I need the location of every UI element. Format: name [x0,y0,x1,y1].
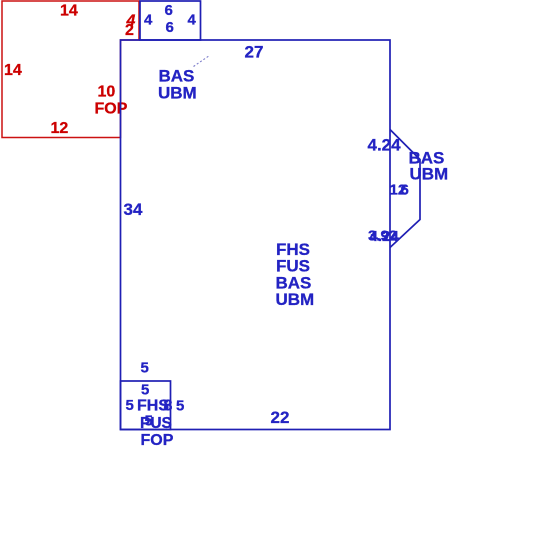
svg-text:14: 14 [4,62,22,79]
utility square outline (bottom left) [121,381,171,430]
svg-text:6: 6 [165,2,173,19]
main house outline [121,40,391,430]
svg-text:FOP: FOP [95,101,128,118]
svg-text:4.24: 4.24 [368,136,402,155]
svg-text:5: 5 [141,360,149,377]
FOP porch outline (red polygon) [2,1,139,138]
bay window outline [390,130,420,248]
small stoop box outline (blue, top) [140,1,201,40]
svg-text:12: 12 [51,120,69,137]
svg-text:8: 8 [164,398,173,415]
svg-text:14: 14 [60,3,78,20]
svg-text:FOP: FOP [141,432,174,449]
svg-text:UBM: UBM [410,165,449,184]
svg-text:22: 22 [271,408,290,427]
svg-text:4.24: 4.24 [370,228,400,245]
svg-text:10: 10 [98,84,116,101]
svg-text:4: 4 [144,12,153,29]
svg-text:5: 5 [176,398,184,415]
svg-text:5: 5 [141,382,149,399]
svg-text:UBM: UBM [158,84,197,103]
svg-text:4: 4 [188,12,197,29]
svg-text:6: 6 [401,182,409,199]
svg-text:34: 34 [124,200,143,219]
svg-text:5: 5 [126,397,134,414]
svg-text:6: 6 [166,19,174,36]
svg-text:PUS: PUS [140,415,172,432]
svg-text:27: 27 [245,43,264,62]
dashed leader line to BAS/UBM label [194,56,210,67]
svg-text:2: 2 [125,22,134,39]
svg-text:UBM: UBM [276,290,315,309]
